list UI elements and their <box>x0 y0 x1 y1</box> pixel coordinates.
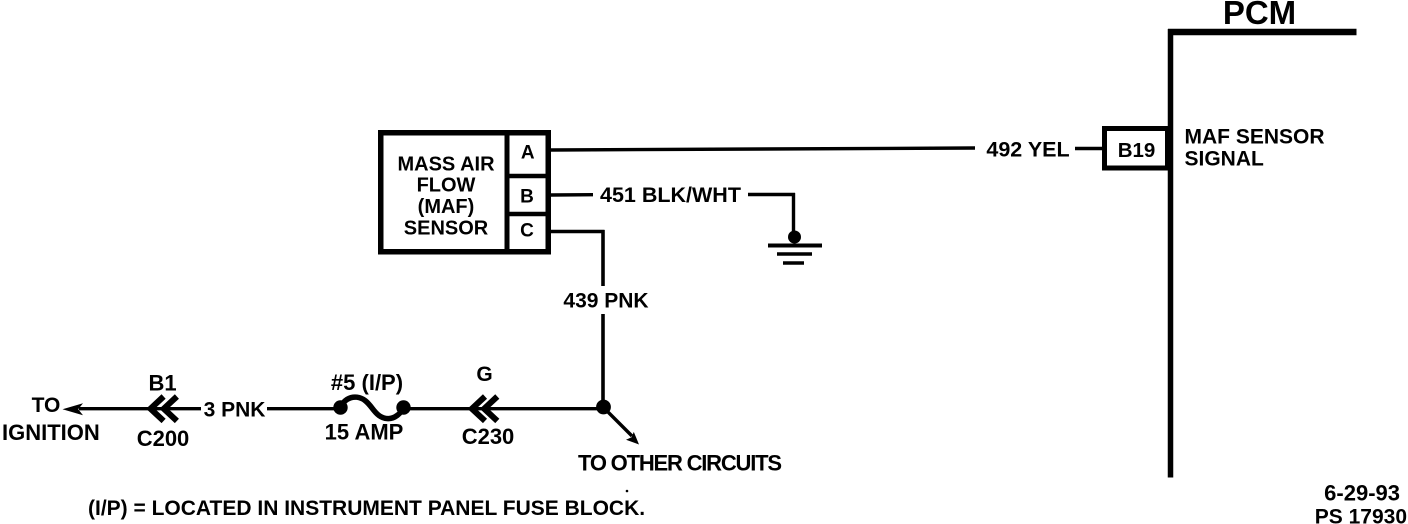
svg-text:C200: C200 <box>137 426 190 451</box>
svg-text:(MAF): (MAF) <box>418 196 475 218</box>
svg-text:B: B <box>520 187 534 208</box>
svg-text:6-29-93: 6-29-93 <box>1324 481 1400 506</box>
svg-text:#5 (I/P): #5 (I/P) <box>331 370 403 395</box>
svg-text:SIGNAL: SIGNAL <box>1185 148 1265 171</box>
svg-text:MAF SENSOR: MAF SENSOR <box>1185 126 1325 149</box>
svg-text:B1: B1 <box>148 371 176 396</box>
svg-text:B19: B19 <box>1118 139 1156 162</box>
svg-text:C: C <box>520 221 534 242</box>
svg-text:3 PNK: 3 PNK <box>204 399 266 422</box>
svg-text:C230: C230 <box>462 424 515 449</box>
svg-text:G: G <box>476 363 492 386</box>
svg-text:SENSOR: SENSOR <box>404 218 489 240</box>
svg-text:TO: TO <box>32 394 61 417</box>
svg-text:MASS AIR: MASS AIR <box>397 154 495 176</box>
svg-text:492 YEL: 492 YEL <box>986 138 1069 162</box>
svg-text:PS 17930: PS 17930 <box>1315 506 1407 524</box>
svg-text:TO OTHER CIRCUITS: TO OTHER CIRCUITS <box>578 451 781 476</box>
svg-text:(I/P) = LOCATED IN INSTRUMENT: (I/P) = LOCATED IN INSTRUMENT PANEL FUSE… <box>88 497 645 520</box>
svg-text:439 PNK: 439 PNK <box>563 290 648 313</box>
svg-text:15 AMP: 15 AMP <box>325 420 404 445</box>
svg-text:A: A <box>521 143 535 164</box>
svg-text:IGNITION: IGNITION <box>2 420 100 445</box>
svg-text:FLOW: FLOW <box>417 175 476 197</box>
svg-text:PCM: PCM <box>1223 0 1296 31</box>
svg-text:451 BLK/WHT: 451 BLK/WHT <box>600 183 741 207</box>
